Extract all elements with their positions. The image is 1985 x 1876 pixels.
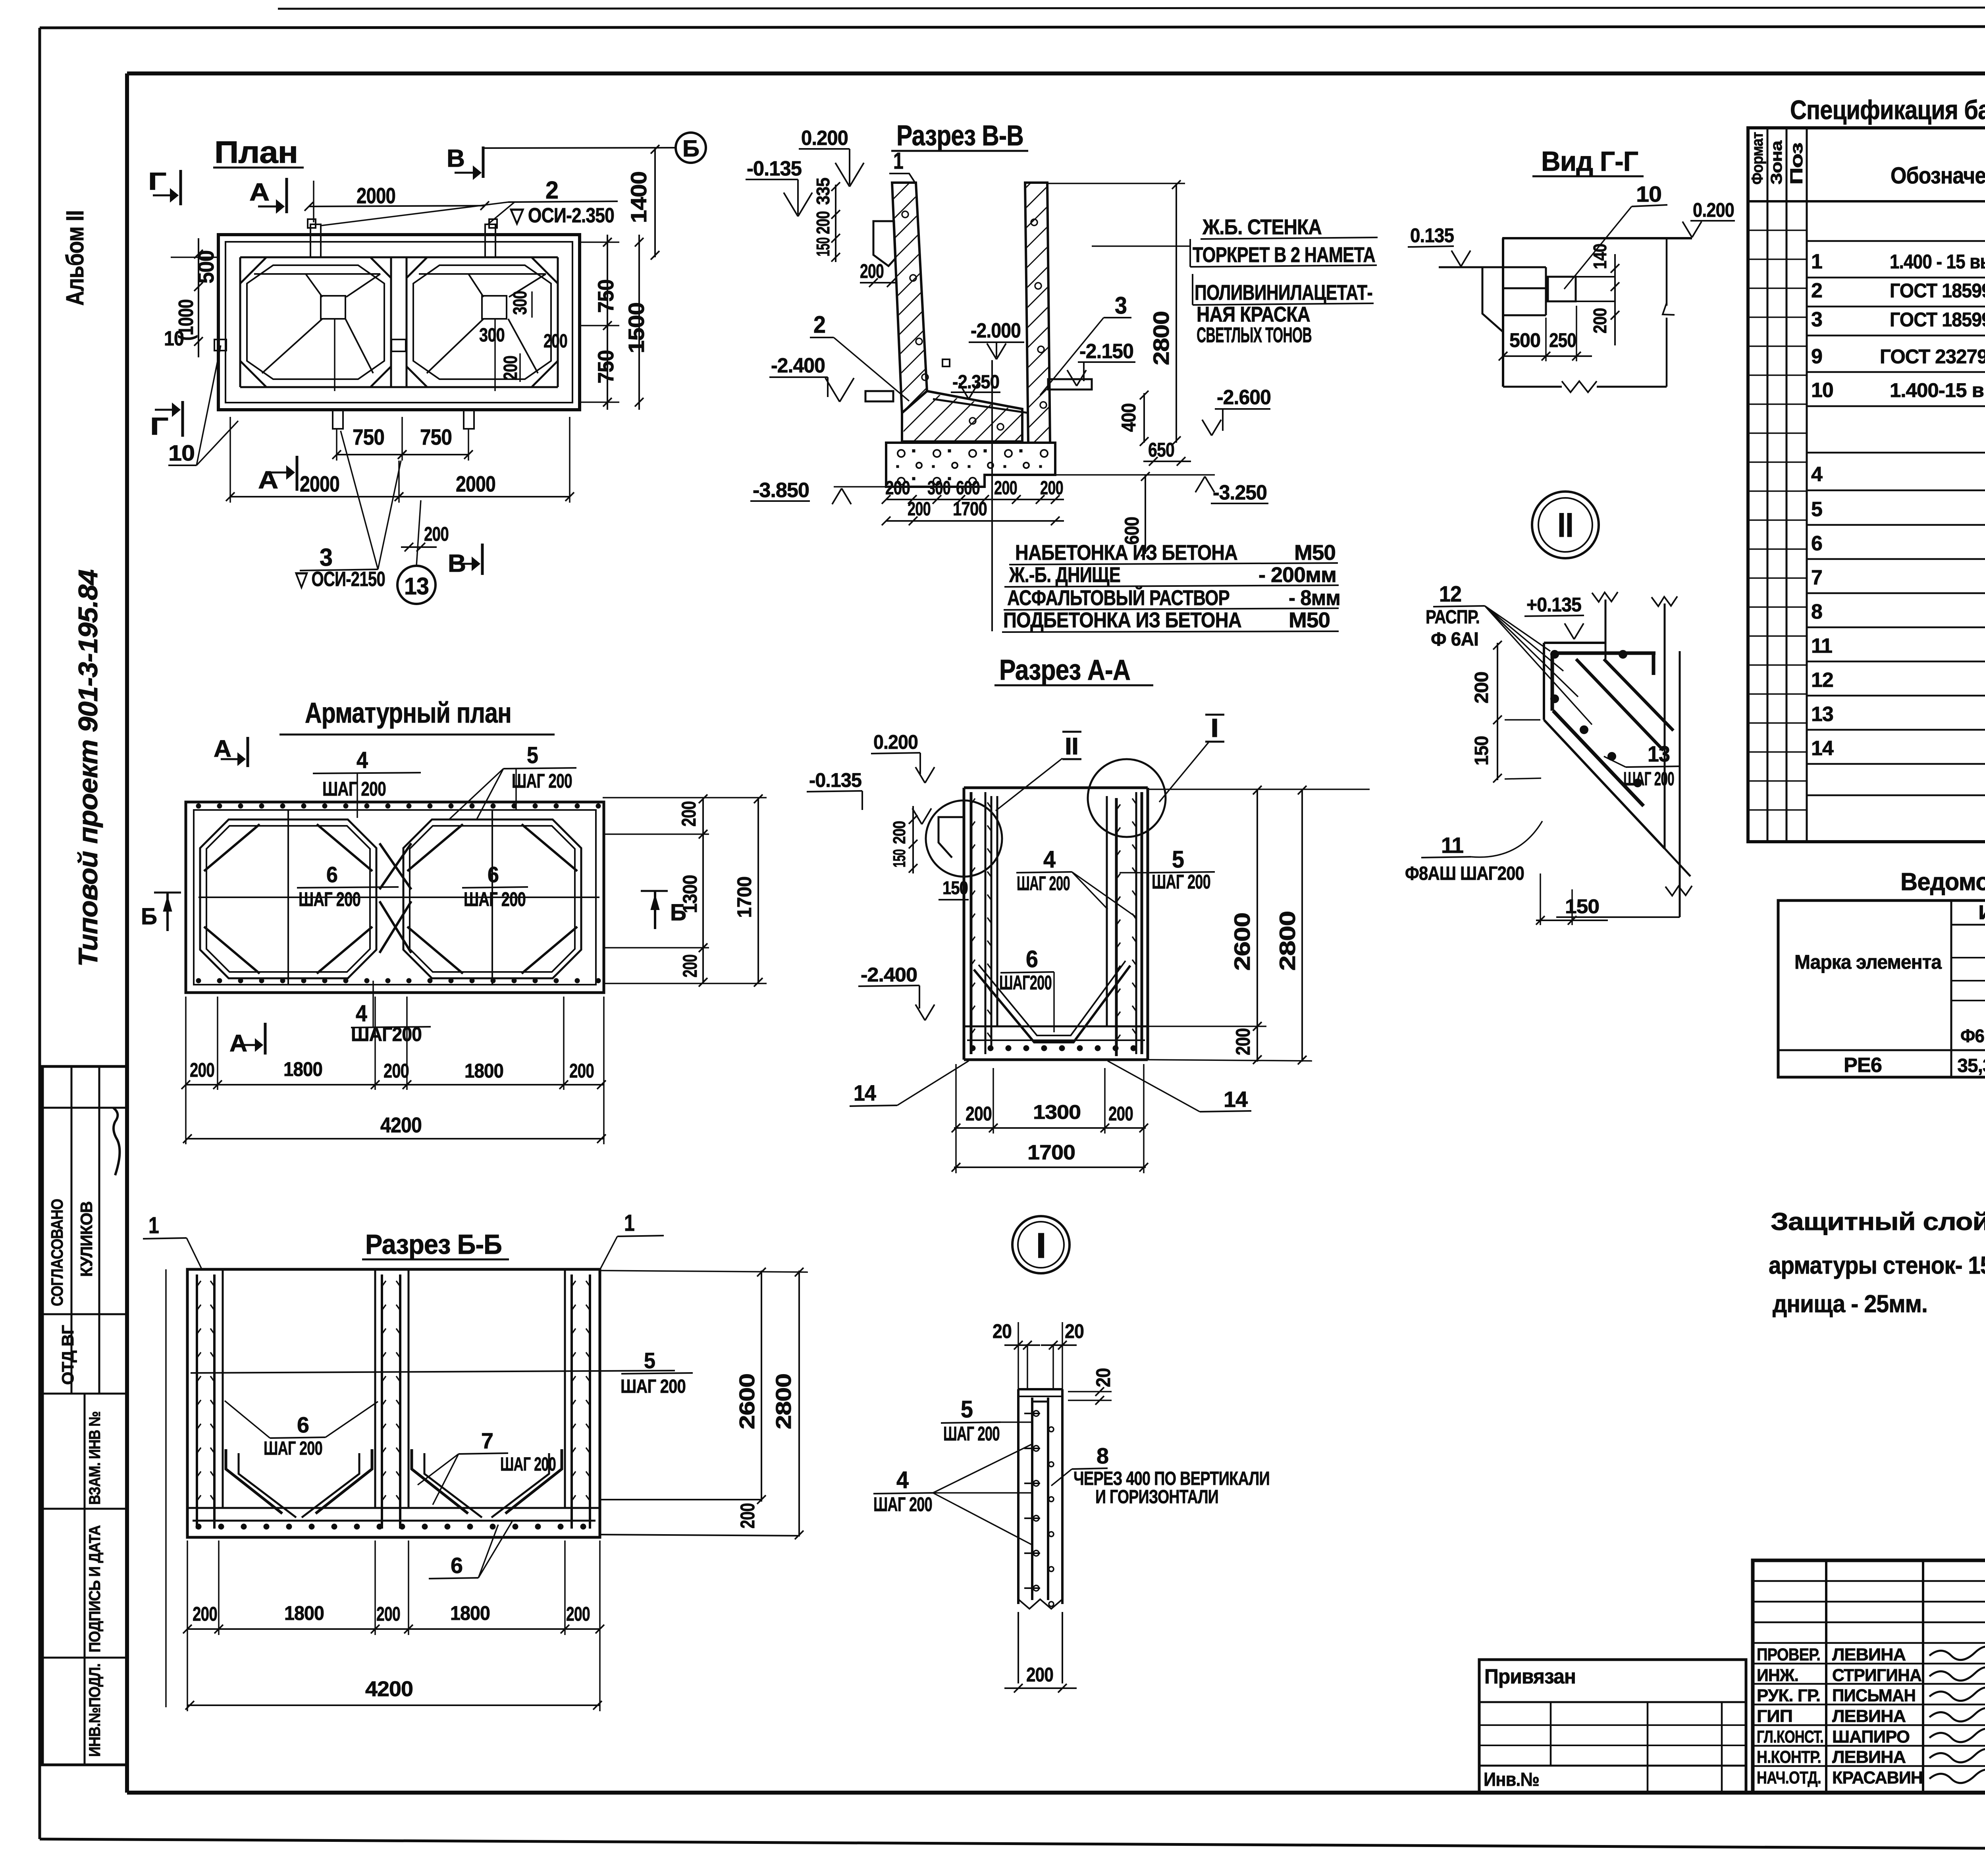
svg-text:20: 20 <box>992 1320 1012 1342</box>
svg-text:ЛЕВИНА: ЛЕВИНА <box>1832 1645 1906 1664</box>
svg-text:ГИП: ГИП <box>1757 1706 1792 1726</box>
svg-text:7: 7 <box>481 1428 493 1453</box>
svg-text:200: 200 <box>1232 1028 1254 1055</box>
svg-text:ОТД ВГ: ОТД ВГ <box>58 1325 77 1385</box>
svg-text:II: II <box>1065 733 1078 760</box>
svg-text:Ведомость расхода стали на: Ведомость расхода стали на элемент, кг <box>1900 868 1985 896</box>
svg-text:Н.КОНТР.: Н.КОНТР. <box>1757 1747 1821 1767</box>
svg-text:4: 4 <box>356 1001 367 1026</box>
svg-text:ПОЛИВИНИЛАЦЕТАТ-: ПОЛИВИНИЛАЦЕТАТ- <box>1195 281 1372 305</box>
dim 140 200 <box>1614 254 1616 345</box>
top-left ledge aa <box>939 817 964 858</box>
svg-text:Ф8АШ ШАГ200: Ф8АШ ШАГ200 <box>1405 863 1524 884</box>
left vertical dim line bb <box>165 1269 167 1707</box>
svg-text:Зона: Зона <box>1768 140 1785 185</box>
svg-text:РЕ6: РЕ6 <box>1844 1054 1882 1077</box>
svg-text:6: 6 <box>326 862 337 887</box>
svg-text:ШАПИРО: ШАПИРО <box>1832 1727 1910 1747</box>
svg-text:1500: 1500 <box>624 303 649 353</box>
svg-text:200: 200 <box>813 211 833 234</box>
inner frame <box>127 71 1985 75</box>
svg-text:150: 150 <box>1471 736 1492 765</box>
svg-text:- 8мм: - 8мм <box>1289 586 1340 610</box>
cell octagons ap <box>200 819 376 978</box>
inner rebar strip <box>1031 1398 1033 1600</box>
svg-text:ШАГ 200: ШАГ 200 <box>464 888 526 910</box>
svg-text:6: 6 <box>488 862 499 887</box>
svg-text:650: 650 <box>1148 439 1174 461</box>
svg-text:335: 335 <box>813 178 833 205</box>
svg-text:ИНЖ.: ИНЖ. <box>1757 1666 1798 1685</box>
svg-text:150: 150 <box>942 877 968 898</box>
svg-text:5: 5 <box>961 1396 973 1423</box>
svg-text:4: 4 <box>357 747 368 773</box>
svg-text:ЛЕВИНА: ЛЕВИНА <box>1832 1706 1906 1726</box>
svg-text:НАБЕТОНКА ИЗ БЕТОНА: НАБЕТОНКА ИЗ БЕТОНА <box>1015 541 1237 565</box>
pipe left <box>865 391 893 401</box>
embedded item rect <box>1548 277 1576 301</box>
svg-text:Спецификация баков крепкого: Спецификация баков крепкого раствора изв… <box>1790 95 1985 125</box>
svg-text:750: 750 <box>353 424 384 449</box>
svg-text:2000: 2000 <box>357 183 395 208</box>
svg-text:М50: М50 <box>1294 541 1336 565</box>
svg-text:НАЧ.ОТД.: НАЧ.ОТД. <box>1757 1768 1821 1787</box>
slab rebar dots aa <box>970 1046 975 1051</box>
svg-text:ШАГ 200: ШАГ 200 <box>1623 769 1674 790</box>
svg-text:Обозначение: Обозначение <box>1891 163 1985 189</box>
svg-text:ШАГ200: ШАГ200 <box>999 972 1052 994</box>
svg-text:200: 200 <box>678 801 700 827</box>
svg-text:750: 750 <box>420 424 452 449</box>
svg-text:12: 12 <box>1439 581 1461 606</box>
foundation slab <box>886 443 1055 487</box>
svg-text:-2.400: -2.400 <box>861 964 917 986</box>
svg-text:6: 6 <box>1026 946 1038 972</box>
dims 200 150 left <box>1497 643 1498 780</box>
axis circle B <box>676 133 706 163</box>
svg-text:2600: 2600 <box>1230 913 1255 971</box>
svg-text:II: II <box>1557 506 1573 544</box>
circle 13 <box>397 566 436 604</box>
title block outer <box>1753 1560 1985 1793</box>
svg-text:1.400 - 15 вып.1: 1.400 - 15 вып.1 <box>1890 251 1985 273</box>
floor slope line <box>933 399 1028 413</box>
page top scan edge <box>278 7 1985 9</box>
svg-text:1800: 1800 <box>284 1602 324 1624</box>
aa left dims 200 150 <box>912 806 914 873</box>
svg-text:5: 5 <box>1811 498 1822 521</box>
svg-text:Вид Г-Г: Вид Г-Г <box>1541 146 1638 177</box>
svg-text:ШАГ 200: ШАГ 200 <box>1017 872 1070 895</box>
svg-text:2: 2 <box>813 311 825 338</box>
svg-text:300: 300 <box>510 291 531 315</box>
svg-text:ГЛ.КОНСТ.: ГЛ.КОНСТ. <box>1757 1727 1823 1747</box>
svg-text:1800: 1800 <box>464 1060 503 1082</box>
signatures squiggles <box>1929 1647 1985 1660</box>
svg-text:200: 200 <box>994 478 1017 499</box>
svg-text:Изделия арматурные: Изделия арматурные <box>1978 901 1985 924</box>
svg-text:13: 13 <box>1648 741 1670 766</box>
svg-text:Инв.№: Инв.№ <box>1484 1769 1539 1790</box>
svg-text:I: I <box>1210 713 1218 742</box>
svg-text:Ж.-Б. ДНИЩЕ: Ж.-Б. ДНИЩЕ <box>1009 563 1120 587</box>
svg-text:200: 200 <box>193 1603 217 1625</box>
svg-text:И ГОРИЗОНТАЛИ: И ГОРИЗОНТАЛИ <box>1095 1487 1218 1508</box>
svg-text:750: 750 <box>593 350 618 384</box>
svg-text:0.135: 0.135 <box>1410 224 1454 247</box>
svg-text:200: 200 <box>890 821 909 844</box>
right dim chain 750 750 <box>607 235 608 410</box>
svg-text:2000: 2000 <box>300 471 339 496</box>
svg-text:Разрез А-А: Разрез А-А <box>999 654 1130 686</box>
svg-text:2: 2 <box>545 177 558 204</box>
svg-text:8: 8 <box>1097 1443 1108 1468</box>
svg-text:200: 200 <box>1590 308 1610 334</box>
svg-text:300: 300 <box>927 478 950 499</box>
svg-text:2800: 2800 <box>1275 911 1300 971</box>
svg-text:Привязан: Привязан <box>1484 1665 1576 1688</box>
corner wall profile <box>1605 600 1607 659</box>
privyazan block <box>1479 1660 1746 1793</box>
right wall hatched <box>1025 183 1050 443</box>
side stub left wall <box>214 339 226 351</box>
leaders from 12 <box>1485 606 1550 651</box>
svg-text:ТОРКРЕТ В 2 НАМЕТА: ТОРКРЕТ В 2 НАМЕТА <box>1193 243 1375 267</box>
svg-text:ГОСТ 18599-79*: ГОСТ 18599-79* <box>1890 280 1985 302</box>
svg-text:14: 14 <box>1224 1087 1248 1112</box>
mid horizontal bar bb <box>191 1371 675 1373</box>
svg-text:2800: 2800 <box>1149 311 1174 365</box>
svg-text:8: 8 <box>1811 600 1822 623</box>
svg-text:-2.400: -2.400 <box>771 354 825 377</box>
svg-text:200: 200 <box>500 356 521 380</box>
svg-text:А: А <box>249 179 269 206</box>
left wall top ledge <box>873 221 896 266</box>
detail II bubble <box>1532 492 1599 558</box>
svg-text:ШАГ 200: ШАГ 200 <box>873 1493 932 1515</box>
leader to axis circle B <box>483 148 676 148</box>
svg-text:ПИСЬМАН: ПИСЬМАН <box>1832 1686 1916 1705</box>
svg-text:Формат: Формат <box>1749 132 1766 185</box>
svg-text:1: 1 <box>893 148 903 174</box>
svg-text:200: 200 <box>1471 672 1492 704</box>
svg-text:-2.600: -2.600 <box>1217 386 1271 409</box>
tank section outline aa <box>964 787 1148 789</box>
svg-text:КУЛИКОВ: КУЛИКОВ <box>77 1201 96 1277</box>
svg-text:ВЗАМ. ИНВ №: ВЗАМ. ИНВ № <box>86 1411 104 1505</box>
svg-text:200: 200 <box>566 1603 590 1625</box>
svg-text:200: 200 <box>190 1059 214 1081</box>
svg-text:0.200: 0.200 <box>1693 199 1734 221</box>
svg-text:2000: 2000 <box>456 471 495 496</box>
tank floor sloped <box>902 391 1022 442</box>
svg-text:7: 7 <box>1811 566 1822 589</box>
svg-text:150: 150 <box>813 237 833 256</box>
svg-text:НАЯ КРАСКА: НАЯ КРАСКА <box>1197 303 1310 326</box>
svg-text:2800: 2800 <box>772 1374 796 1429</box>
outer border <box>40 26 1985 28</box>
steel table grid <box>1778 900 1985 1077</box>
svg-text:КРАСАВИН: КРАСАВИН <box>1832 1768 1923 1787</box>
svg-text:200: 200 <box>736 1503 759 1529</box>
floor layers callout <box>991 360 993 631</box>
svg-text:1400: 1400 <box>626 172 651 223</box>
right dim 1500 <box>638 235 640 410</box>
pipe right <box>1048 379 1092 389</box>
svg-text:5: 5 <box>527 742 538 768</box>
svg-text:РУК. ГР.: РУК. ГР. <box>1757 1686 1820 1705</box>
svg-text:-0.135: -0.135 <box>747 157 802 180</box>
svg-text:В: В <box>447 145 464 172</box>
svg-text:ЛЕВИНА: ЛЕВИНА <box>1832 1747 1906 1767</box>
svg-text:4200: 4200 <box>365 1677 413 1701</box>
svg-text:10: 10 <box>168 440 195 465</box>
svg-text:500: 500 <box>193 251 218 283</box>
svg-text:днища - 25мм.: днища - 25мм. <box>1773 1290 1927 1318</box>
svg-text:Ф6: Ф6 <box>1960 1026 1984 1046</box>
svg-text:1800: 1800 <box>283 1058 322 1080</box>
svg-text:АСФАЛЬТОВЫЙ РАСТВОР: АСФАЛЬТОВЫЙ РАСТВОР <box>1007 586 1230 610</box>
svg-text:ШАГ 200: ШАГ 200 <box>1152 871 1210 893</box>
rebar in corner <box>1552 652 1655 655</box>
svg-text:4: 4 <box>1043 846 1056 873</box>
section outline bb <box>187 1269 600 1537</box>
svg-text:Б: Б <box>141 904 157 929</box>
plan slab rect ap <box>186 802 604 993</box>
detail circles aa <box>926 800 1002 877</box>
svg-text:Арматурный план: Арматурный план <box>305 697 511 729</box>
svg-text:Разрез В-В: Разрез В-В <box>896 120 1023 152</box>
title block left grid <box>1825 1560 1827 1793</box>
svg-text:1800: 1800 <box>450 1602 490 1624</box>
svg-text:1700: 1700 <box>1027 1141 1075 1164</box>
svg-text:13: 13 <box>404 573 429 600</box>
rebar verticals bb <box>196 1274 198 1529</box>
central divider wall <box>390 257 392 387</box>
svg-text:Ф 6АІ: Ф 6АІ <box>1431 629 1478 650</box>
svg-text:Защитный слой для: Защитный слой для <box>1771 1208 1985 1236</box>
svg-text:ШАГ 200: ШАГ 200 <box>322 778 386 800</box>
svg-text:Марка элемента: Марка элемента <box>1794 951 1942 973</box>
svg-text:400: 400 <box>1118 403 1140 432</box>
svg-text:20: 20 <box>1065 1320 1084 1342</box>
svg-text:-3.250: -3.250 <box>1213 481 1267 504</box>
central stubs <box>391 339 406 351</box>
svg-text:1: 1 <box>148 1213 159 1238</box>
ap right dims <box>603 797 767 798</box>
svg-text:250: 250 <box>1549 329 1576 351</box>
svg-text:-0.135: -0.135 <box>809 769 861 791</box>
svg-text:200: 200 <box>384 1060 409 1082</box>
svg-text:140: 140 <box>1590 244 1610 269</box>
svg-text:6: 6 <box>1811 532 1822 555</box>
left wall hatched <box>892 183 927 413</box>
svg-text:Б: Б <box>682 136 699 162</box>
slab extension right bb <box>600 1499 761 1500</box>
svg-text:500: 500 <box>1509 329 1540 351</box>
left dims 500 1000 10 <box>198 238 199 357</box>
bottom stubs <box>333 410 343 429</box>
svg-text:ГОСТ 18599-79*: ГОСТ 18599-79* <box>1890 308 1985 331</box>
svg-text:ШАГ 200: ШАГ 200 <box>500 1454 556 1475</box>
svg-text:200: 200 <box>679 954 701 978</box>
wall rebar aa <box>970 792 973 1054</box>
corner profile <box>1502 237 1692 239</box>
svg-text:ПОДБЕТОНКА ИЗ БЕТОНА: ПОДБЕТОНКА ИЗ БЕТОНА <box>1003 608 1241 632</box>
bottom dim 2000 2000 <box>230 496 399 497</box>
svg-text:0.200: 0.200 <box>801 127 848 150</box>
svg-text:200: 200 <box>1026 1664 1053 1686</box>
svg-text:ШАГ200: ШАГ200 <box>351 1023 422 1045</box>
left cell chamfered opening <box>266 256 383 258</box>
svg-text:200: 200 <box>860 260 884 282</box>
bottom slab rebar bb <box>193 1520 595 1522</box>
detail I bubble <box>1012 1216 1070 1273</box>
svg-text:ШАГ 200: ШАГ 200 <box>621 1376 686 1397</box>
svg-text:Г: Г <box>150 413 168 440</box>
svg-text:150: 150 <box>890 849 909 868</box>
svg-text:ПРОВЕР.: ПРОВЕР. <box>1757 1645 1820 1664</box>
svg-text:12: 12 <box>1811 669 1833 692</box>
svg-text:0.200: 0.200 <box>873 731 918 753</box>
svg-text:20: 20 <box>1092 1368 1114 1387</box>
svg-text:4: 4 <box>1811 463 1823 486</box>
svg-text:СОГЛАСОВАНО: СОГЛАСОВАНО <box>48 1199 66 1306</box>
svg-text:4: 4 <box>896 1467 909 1493</box>
funnel aa <box>974 966 1130 1042</box>
svg-text:10: 10 <box>1636 181 1661 206</box>
svg-text:А: А <box>258 467 278 494</box>
svg-text:2600: 2600 <box>735 1374 759 1429</box>
right edge with break <box>1666 238 1668 306</box>
svg-text:Поз: Поз <box>1787 143 1806 185</box>
svg-text:14: 14 <box>854 1080 876 1105</box>
svg-text:Разрез Б-Б: Разрез Б-Б <box>365 1229 502 1260</box>
svg-text:200: 200 <box>569 1060 594 1082</box>
svg-text:1: 1 <box>624 1210 634 1236</box>
svg-text:1700: 1700 <box>953 499 987 520</box>
svg-text:200: 200 <box>908 499 931 520</box>
pipe stub top left <box>310 224 321 257</box>
svg-text:1300: 1300 <box>679 875 701 913</box>
svg-text:11: 11 <box>1441 833 1463 858</box>
svg-text:ПОДПИСЬ И ДАТА: ПОДПИСЬ И ДАТА <box>86 1525 104 1652</box>
svg-text:14: 14 <box>1811 737 1834 760</box>
svg-text:1300: 1300 <box>1033 1101 1081 1123</box>
svg-text:ГОСТ 23279-78: ГОСТ 23279-78 <box>1880 345 1985 368</box>
center grid lines ap <box>198 897 599 898</box>
svg-text:200: 200 <box>543 331 567 352</box>
svg-text:200: 200 <box>376 1603 400 1625</box>
svg-text:5: 5 <box>644 1348 655 1373</box>
svg-text:5: 5 <box>1172 846 1184 873</box>
svg-text:СТРИГИНА: СТРИГИНА <box>1832 1666 1921 1685</box>
svg-text:Ж.Б. СТЕНКА: Ж.Б. СТЕНКА <box>1202 215 1322 239</box>
svg-text:ШАГ 200: ШАГ 200 <box>943 1423 1000 1445</box>
svg-text:I: I <box>1036 1226 1046 1266</box>
svg-text:9: 9 <box>1811 345 1822 368</box>
svg-text:3: 3 <box>320 544 332 571</box>
svg-text:1700: 1700 <box>733 877 755 918</box>
svg-text:ШАГ 200: ШАГ 200 <box>512 770 572 792</box>
svg-text:6: 6 <box>297 1412 309 1437</box>
svg-text:- 200мм: - 200мм <box>1258 563 1336 587</box>
svg-text:Г: Г <box>148 168 166 195</box>
svg-text:4200: 4200 <box>380 1113 422 1137</box>
svg-text:-3.850: -3.850 <box>753 479 809 502</box>
svg-text:А: А <box>214 735 231 762</box>
svg-text:М50: М50 <box>1289 608 1330 632</box>
spec table grid <box>1748 128 1985 842</box>
svg-text:6: 6 <box>451 1553 463 1578</box>
pipe stub top right <box>485 224 495 257</box>
left stamp column <box>42 1066 127 1765</box>
bottom break <box>1503 386 1562 388</box>
diagonal hook bars bb <box>226 1449 282 1514</box>
svg-text:ШАГ 200: ШАГ 200 <box>264 1438 322 1459</box>
bottom dims 750 750 <box>337 454 402 455</box>
svg-text:СВЕТЛЫХ ТОНОВ: СВЕТЛЫХ ТОНОВ <box>1197 323 1312 347</box>
svg-text:150: 150 <box>1565 895 1599 918</box>
svg-text:РАСПР.: РАСПР. <box>1426 607 1480 628</box>
svg-text:План: План <box>214 135 298 170</box>
plan top flange lines <box>240 256 558 258</box>
svg-text:3: 3 <box>1811 308 1822 331</box>
svg-text:200: 200 <box>1108 1103 1133 1125</box>
svg-text:35,3: 35,3 <box>1957 1055 1985 1076</box>
svg-text:11: 11 <box>1811 634 1832 657</box>
svg-text:300: 300 <box>479 325 505 346</box>
wall strip <box>1018 1388 1062 1390</box>
wall concrete speckles <box>902 211 908 218</box>
perimeter dots ap <box>197 804 200 808</box>
svg-text:ШАГ 200: ШАГ 200 <box>299 888 360 910</box>
svg-text:Альбом II: Альбом II <box>62 210 89 306</box>
svg-text:3: 3 <box>1115 292 1127 319</box>
right cell chamfered opening <box>407 257 427 278</box>
corner diagonal bars ap <box>204 824 260 871</box>
svg-text:-2.000: -2.000 <box>971 319 1021 342</box>
right hopper <box>419 273 546 275</box>
svg-text:-2.150: -2.150 <box>1079 340 1133 363</box>
svg-text:1.400-15 вып.1: 1.400-15 вып.1 <box>1890 379 1985 401</box>
svg-text:10: 10 <box>1811 379 1833 402</box>
svg-text:Типовой проект 901-3-195.84: Типовой проект 901-3-195.84 <box>73 570 103 967</box>
svg-text:1: 1 <box>1811 250 1822 273</box>
svg-text:А: А <box>229 1030 247 1057</box>
svg-text:2: 2 <box>1811 279 1822 302</box>
svg-text:арматуры стенок- 15мм,: арматуры стенок- 15мм, <box>1769 1252 1985 1279</box>
left hopper <box>254 273 380 275</box>
svg-text:750: 750 <box>593 280 618 313</box>
svg-text:200: 200 <box>424 523 449 545</box>
svg-text:ИНВ.№ПОДЛ.: ИНВ.№ПОДЛ. <box>86 1664 104 1757</box>
svg-text:200: 200 <box>966 1103 992 1125</box>
svg-text:10: 10 <box>164 327 184 350</box>
svg-text:13: 13 <box>1811 703 1833 726</box>
svg-text:600: 600 <box>956 478 980 499</box>
top-left dims 335 200 150 200 <box>835 185 836 262</box>
plan outer walls <box>218 235 580 410</box>
center X between cells ap <box>380 843 411 889</box>
svg-text:+0.135: +0.135 <box>1526 594 1581 616</box>
svg-text:▽ ОСИ-2150: ▽ ОСИ-2150 <box>295 568 385 591</box>
svg-text:▽ ОСИ-2.350: ▽ ОСИ-2.350 <box>509 204 614 227</box>
